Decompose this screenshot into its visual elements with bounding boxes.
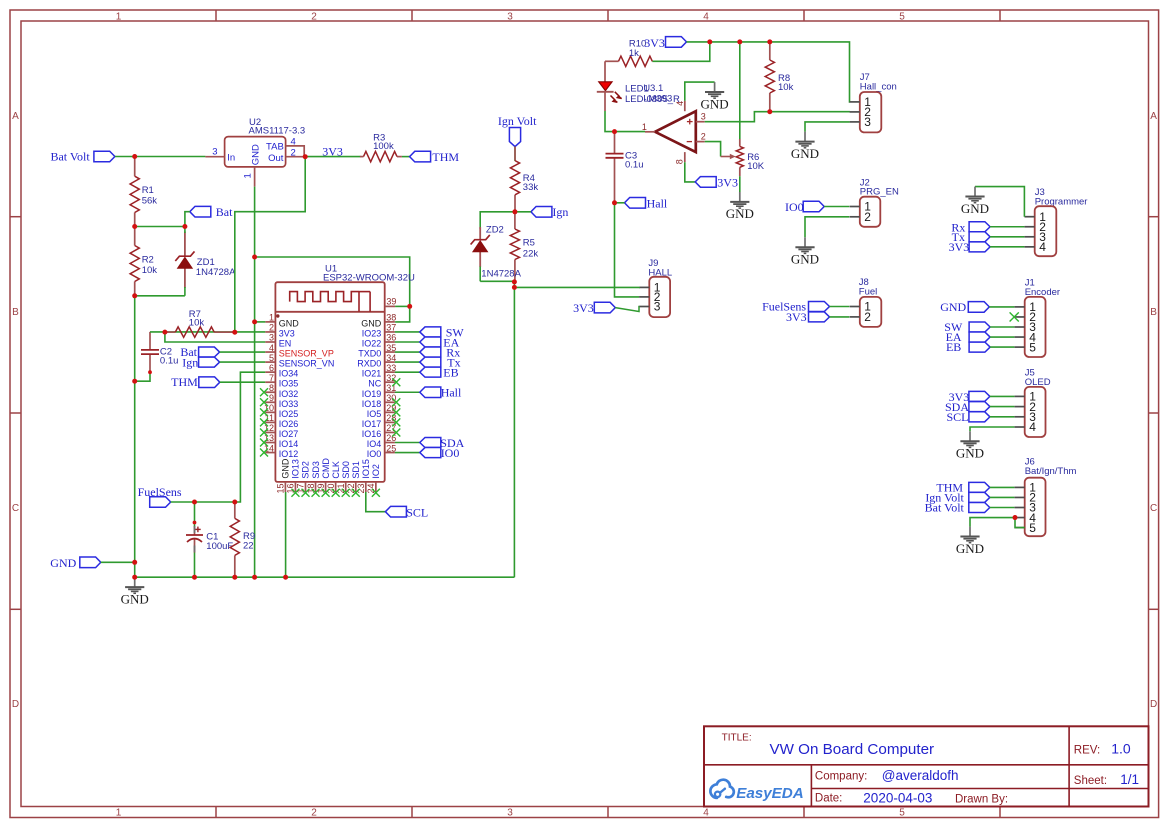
wire: [395, 331, 420, 333]
wire: [990, 336, 1014, 338]
IC U1 ESP32-WROOM-32U: [264, 264, 415, 494]
resistor R2: [130, 227, 157, 296]
svg-text:SD0: SD0: [341, 461, 351, 479]
node GND (J1): [940, 300, 989, 314]
svg-text:Bat/Ign/Thm: Bat/Ign/Thm: [1025, 466, 1077, 477]
junction: [232, 575, 237, 580]
node SW: [420, 325, 465, 339]
svg-text:2: 2: [311, 807, 317, 818]
resistor R9: [230, 502, 255, 577]
node SDA: [420, 436, 465, 450]
svg-text:3: 3: [212, 147, 217, 158]
connector J2 PRG_EN: [850, 177, 899, 227]
svg-text:AMS1117-3.3: AMS1117-3.3: [249, 126, 306, 137]
svg-text:8: 8: [269, 383, 274, 393]
zener diode ZD2: [471, 224, 522, 279]
svg-text:3V3: 3V3: [717, 175, 738, 189]
node SDA (J5): [945, 400, 990, 414]
svg-text:A: A: [1150, 111, 1157, 122]
svg-text:15: 15: [276, 483, 286, 493]
svg-text:100k: 100k: [373, 141, 394, 152]
connector J9 HALL: [639, 258, 672, 317]
svg-text:2: 2: [291, 148, 296, 159]
no-connect X: [332, 489, 340, 497]
svg-text:0.1u: 0.1u: [625, 160, 644, 171]
svg-text:GND: GND: [956, 446, 984, 461]
wire GND to ESP32 pins 38/39: [255, 257, 410, 322]
wire J9 pin1 GND row: [514, 286, 639, 288]
junction: [512, 209, 517, 214]
connector J5 OLED: [1015, 368, 1051, 438]
node EA: [420, 336, 460, 350]
node Bat: [190, 205, 233, 219]
node Ign (sensor): [182, 355, 219, 369]
no-connect X: [392, 428, 400, 436]
wire ZD2 bottom: [480, 280, 514, 282]
wire 3V3 rail to R6: [739, 42, 741, 139]
no-connect X: [342, 489, 350, 497]
svg-text:IO23: IO23: [362, 328, 382, 338]
svg-text:36: 36: [386, 333, 396, 343]
node 3V3 label: [322, 144, 343, 158]
svg-text:IO35: IO35: [279, 379, 299, 389]
svg-text:A: A: [12, 111, 19, 122]
no-connect X: [322, 489, 330, 497]
svg-text:SENSOR_VP: SENSOR_VP: [279, 349, 334, 359]
svg-text:1N4728A: 1N4728A: [196, 267, 236, 278]
junction: [132, 224, 137, 229]
svg-text:Hall_con: Hall_con: [860, 82, 897, 93]
connector J3 Programmer: [1025, 187, 1088, 256]
svg-text:22: 22: [243, 540, 254, 551]
svg-text:RXD0: RXD0: [357, 359, 381, 369]
no-connect X: [260, 398, 268, 406]
wire: [990, 496, 1015, 498]
junction: [1013, 515, 1018, 520]
svg-text:U3.1: U3.1: [643, 83, 663, 94]
svg-text:6: 6: [269, 363, 274, 373]
no-connect X: [260, 418, 268, 426]
junction: [612, 129, 617, 134]
svg-text:3V3: 3V3: [644, 36, 665, 50]
svg-text:1: 1: [642, 122, 647, 132]
wire: [990, 507, 1015, 509]
node EB (J1): [946, 340, 990, 354]
svg-text:GND: GND: [961, 201, 989, 216]
wire C2 top to 3V3 row: [150, 331, 265, 333]
LED LED1 (LED-0805_R): [597, 61, 680, 111]
node 3V3 (J8): [786, 310, 829, 324]
svg-text:1: 1: [242, 173, 253, 178]
no-connect X: [312, 489, 320, 497]
node Rx: [420, 345, 461, 359]
svg-text:4: 4: [703, 807, 709, 818]
svg-text:Bat Volt: Bat Volt: [925, 501, 965, 515]
svg-text:Ign: Ign: [182, 355, 198, 369]
wire: [830, 306, 850, 308]
svg-text:IO18: IO18: [362, 399, 382, 409]
wire: [479, 267, 481, 282]
wire 3V3 diag to J9 pin3: [615, 307, 639, 312]
svg-text:GND: GND: [50, 556, 76, 570]
svg-text:5: 5: [1029, 340, 1036, 354]
svg-text:SCL: SCL: [946, 410, 968, 424]
svg-text:C: C: [12, 503, 19, 514]
wire: [990, 326, 1014, 328]
node SCL: [385, 505, 428, 519]
svg-text:TAB: TAB: [266, 141, 284, 152]
svg-text:ZD2: ZD2: [486, 224, 504, 235]
connector J6 Bat/Ign/Thm: [1015, 457, 1077, 537]
pin-end dot C2: [148, 370, 152, 374]
capacitor C2: [141, 332, 178, 372]
svg-text:EN: EN: [279, 339, 292, 349]
svg-text:3: 3: [507, 807, 513, 818]
svg-text:VW On Board Computer: VW On Board Computer: [770, 741, 935, 758]
svg-text:R5: R5: [523, 238, 535, 249]
pin-end dot C1: [193, 521, 197, 525]
junction: [232, 500, 237, 505]
wire GND column left: [134, 296, 136, 577]
svg-text:Hall: Hall: [647, 196, 668, 210]
junction: [252, 575, 257, 580]
svg-text:1N4728A: 1N4728A: [481, 269, 521, 280]
svg-text:2: 2: [269, 323, 274, 333]
node THM: [410, 150, 460, 164]
wire: [255, 321, 266, 323]
wire: [402, 156, 410, 158]
wire R6 to GND: [739, 176, 741, 192]
svg-text:TITLE:: TITLE:: [722, 732, 752, 743]
potentiometer R6 wiper arrow: [721, 154, 736, 159]
node EB: [420, 365, 459, 379]
svg-text:Sheet:: Sheet:: [1074, 775, 1107, 787]
junction: [132, 379, 137, 384]
svg-text:3V3: 3V3: [786, 310, 807, 324]
wire J7 pin3 to GND: [805, 122, 850, 132]
svg-text:GND: GND: [279, 318, 300, 328]
junction: [707, 39, 712, 44]
svg-text:7: 7: [269, 373, 274, 383]
wire: [395, 442, 420, 444]
svg-text:8: 8: [674, 159, 684, 164]
svg-text:D: D: [1150, 699, 1157, 710]
node Tx (J3): [952, 230, 990, 244]
svg-text:Hall: Hall: [441, 386, 462, 400]
svg-text:1/1: 1/1: [1120, 772, 1139, 787]
svg-text:D: D: [12, 699, 19, 710]
wire C2 bottom: [135, 372, 150, 381]
ground (J7): [791, 132, 819, 161]
svg-text:B: B: [1150, 307, 1157, 318]
svg-text:10k: 10k: [189, 318, 205, 329]
node Bat Volt (J6): [925, 501, 990, 515]
svg-text:SD1: SD1: [351, 461, 361, 479]
wire: [514, 147, 516, 161]
svg-text:IO32: IO32: [279, 389, 299, 399]
wire J6 pins 4-5 to GND: [970, 518, 1014, 527]
svg-text:35: 35: [386, 343, 396, 353]
no-connect X: [291, 489, 299, 497]
wire rail to R10: [652, 42, 710, 61]
node Bat (sensor): [180, 345, 219, 359]
ground (J5): [956, 431, 984, 460]
wire J3 pin1 to GND: [975, 187, 1024, 217]
wire op-amp pin8 to 3V3: [685, 162, 695, 182]
svg-text:SCL: SCL: [406, 505, 428, 519]
no-connect X: [260, 388, 268, 396]
junction: [767, 39, 772, 44]
wire: [605, 111, 645, 132]
ground (J6): [956, 527, 984, 556]
node Tx: [420, 355, 461, 369]
svg-text:10k: 10k: [778, 82, 794, 93]
wire: [220, 351, 266, 353]
wire: [101, 561, 135, 563]
svg-text:3: 3: [507, 11, 513, 22]
svg-text:SENSOR_VN: SENSOR_VN: [279, 359, 335, 369]
resistor R8: [765, 42, 793, 112]
regulator U2 AMS1117-3.3: [205, 117, 305, 187]
svg-text:3: 3: [701, 112, 706, 122]
junction: [737, 39, 742, 44]
node GND flag: [50, 556, 101, 570]
wire: [220, 381, 265, 383]
svg-text:FuelSens: FuelSens: [138, 485, 182, 499]
wire bottom GND bus: [135, 576, 515, 578]
resistor R10: [605, 38, 652, 66]
node 3V3 (rail): [644, 36, 686, 50]
no-connect X: [392, 408, 400, 416]
wire: [185, 212, 190, 227]
svg-text:Date:: Date:: [815, 792, 843, 804]
wire + input row: [705, 112, 850, 122]
svg-text:25: 25: [386, 443, 396, 453]
svg-text:4: 4: [1039, 240, 1046, 254]
junction: [512, 285, 517, 290]
wire: [395, 452, 420, 454]
ground (R6): [726, 192, 754, 221]
node THM (J6): [936, 481, 989, 495]
svg-text:IO33: IO33: [279, 399, 299, 409]
node Rx (J3): [951, 220, 990, 234]
svg-text:IO16: IO16: [362, 429, 382, 439]
wire EN jog: [165, 332, 265, 342]
svg-text:CLK: CLK: [331, 461, 341, 479]
svg-text:EB: EB: [443, 365, 458, 379]
svg-text:IO26: IO26: [279, 419, 299, 429]
svg-text:IO14: IO14: [279, 439, 299, 449]
svg-text:Ign: Ign: [552, 205, 568, 219]
wire IO34 to FuelSens row: [235, 372, 265, 502]
svg-text:9: 9: [269, 393, 274, 403]
svg-text:1: 1: [269, 313, 274, 323]
svg-text:3: 3: [654, 300, 661, 314]
no-connect X: [392, 418, 400, 426]
svg-text:38: 38: [386, 313, 396, 323]
junction: [162, 330, 167, 335]
wire: [395, 351, 420, 353]
svg-text:Drawn By:: Drawn By:: [955, 794, 1008, 806]
svg-text:2020-04-03: 2020-04-03: [863, 791, 932, 806]
resistor R7: [165, 309, 235, 337]
resistor R6: [736, 139, 765, 176]
node FuelSens: [138, 485, 182, 508]
svg-text:39: 39: [386, 297, 396, 307]
wire: [990, 246, 1024, 248]
junction: [612, 200, 617, 205]
svg-text:IO0: IO0: [441, 446, 460, 460]
junction: [283, 575, 288, 580]
svg-text:Bat: Bat: [216, 205, 233, 219]
no-connect X: [372, 489, 380, 497]
wire: [395, 361, 420, 363]
no-connect X: [260, 439, 268, 447]
wire: [990, 236, 1024, 238]
wire: [220, 361, 266, 363]
node Hall (C3): [625, 196, 668, 210]
resistor R3: [360, 132, 402, 161]
junction: [767, 109, 772, 114]
svg-text:TXD0: TXD0: [358, 349, 381, 359]
svg-text:CMD: CMD: [321, 458, 331, 479]
node SW (J1): [944, 320, 990, 334]
wire: [395, 371, 420, 373]
junction: [132, 575, 137, 580]
svg-text:IO25: IO25: [279, 409, 299, 419]
svg-text:33: 33: [386, 363, 396, 373]
connector J1 Encoder: [1015, 278, 1061, 357]
node Ign Volt (J6): [925, 491, 989, 505]
op-amp U3.1 LM393: [642, 83, 706, 164]
no-connect X: [260, 408, 268, 416]
wire: [395, 391, 420, 393]
svg-text:4: 4: [291, 136, 296, 147]
svg-text:2: 2: [311, 11, 317, 22]
svg-text:Out: Out: [268, 153, 284, 164]
svg-text:IO2: IO2: [371, 464, 381, 479]
wire: [184, 227, 186, 234]
junction: [192, 575, 197, 580]
svg-text:2: 2: [864, 310, 871, 324]
svg-text:3: 3: [864, 115, 871, 129]
ground (J3): [961, 187, 989, 216]
capacitor C1: [186, 526, 233, 553]
svg-text:GND: GND: [250, 144, 261, 165]
node THM (sensor): [171, 375, 220, 389]
svg-text:REV:: REV:: [1074, 744, 1100, 756]
svg-text:IO27: IO27: [279, 429, 299, 439]
svg-text:3V3: 3V3: [573, 301, 594, 315]
svg-text:3V3: 3V3: [279, 328, 295, 338]
svg-text:10k: 10k: [142, 265, 158, 276]
svg-text:Company:: Company:: [815, 770, 867, 782]
svg-text:R2: R2: [142, 255, 154, 266]
wire op-amp pin4 to GND: [685, 82, 715, 101]
ground (bottom bus): [121, 577, 149, 606]
resistor R4: [510, 147, 538, 212]
svg-text:5: 5: [899, 807, 905, 818]
wire: [194, 552, 196, 577]
no-connect X: [302, 489, 310, 497]
junction: [407, 304, 412, 309]
wire: [990, 395, 1015, 397]
wire: [515, 211, 531, 213]
capacitor C3: [606, 132, 644, 203]
no-connect X: [392, 398, 400, 406]
svg-text:5: 5: [899, 11, 905, 22]
junction: [232, 330, 237, 335]
junction: [252, 319, 257, 324]
svg-text:IO4: IO4: [367, 439, 382, 449]
node SCL (J5): [946, 410, 989, 424]
node 3V3 (J3): [949, 240, 990, 254]
svg-text:C: C: [1150, 503, 1157, 514]
svg-text:1: 1: [116, 807, 122, 818]
svg-text:37: 37: [386, 323, 396, 333]
EasyEDA logo: [710, 780, 803, 802]
svg-text:Ign Volt: Ign Volt: [498, 114, 537, 128]
wire: [285, 492, 287, 577]
wire J2 pin2 to GND: [805, 217, 849, 238]
svg-text:4: 4: [269, 343, 274, 353]
junction: [132, 293, 137, 298]
svg-text:IO13: IO13: [291, 459, 301, 479]
svg-text:B: B: [12, 307, 19, 318]
svg-text:THM: THM: [171, 375, 198, 389]
wire: [990, 416, 1015, 418]
svg-text:0.1u: 0.1u: [160, 355, 179, 366]
svg-text:100uF: 100uF: [206, 541, 233, 552]
svg-text:IO17: IO17: [362, 419, 382, 429]
wire 3V3 jog to ESP32: [235, 157, 305, 333]
svg-text:2: 2: [864, 210, 871, 224]
svg-text:1: 1: [116, 11, 122, 22]
node Ign: [531, 205, 569, 219]
svg-text:GND: GND: [121, 591, 149, 606]
wire: [395, 341, 420, 343]
svg-text:33k: 33k: [523, 182, 539, 193]
svg-text:GND: GND: [791, 252, 819, 267]
wire: [989, 306, 1014, 308]
svg-text:IO0: IO0: [785, 200, 804, 214]
svg-text:IO12: IO12: [279, 449, 299, 459]
wire U2 GND down: [254, 187, 256, 578]
svg-text:IO22: IO22: [362, 339, 382, 349]
node FuelSens (J8): [762, 300, 829, 314]
svg-text:22k: 22k: [523, 249, 539, 260]
wire - input to R6 wiper: [705, 142, 721, 157]
junction: [192, 500, 197, 505]
svg-text:GND: GND: [281, 458, 291, 479]
node Bat Volt: [50, 150, 114, 164]
svg-text:NC: NC: [368, 379, 381, 389]
svg-text:GND: GND: [791, 146, 819, 161]
svg-text:56k: 56k: [142, 196, 158, 207]
svg-text:SD2: SD2: [301, 461, 311, 479]
svg-text:IO5: IO5: [367, 409, 382, 419]
resistor R5: [510, 212, 538, 282]
no-connect X: [260, 428, 268, 436]
no-connect X: [392, 378, 400, 386]
node IO0 (J2): [785, 200, 824, 214]
wire: [830, 316, 850, 318]
wire Hall to J9 pin2: [615, 203, 640, 297]
junction: [182, 224, 187, 229]
wire: [135, 295, 185, 297]
node EA (J1): [946, 330, 991, 344]
wire GND column right: [513, 282, 515, 577]
